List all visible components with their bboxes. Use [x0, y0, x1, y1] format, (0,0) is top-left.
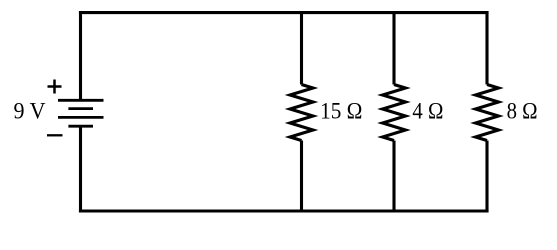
wire 15 ohm branch upper: [300, 11, 303, 84]
resistor 8 ohm (zigzag body): [476, 85, 499, 141]
svg-text:4 Ω: 4 Ω: [412, 98, 443, 123]
wire 4 ohm branch lower: [392, 141, 395, 213]
wire top (top rail from battery branch to right branch): [79, 11, 489, 14]
svg-text:8 Ω: 8 Ω: [507, 99, 538, 124]
resistor 4 ohm (zigzag body): [383, 85, 406, 141]
wire 4 ohm branch upper: [392, 11, 395, 84]
wire battery branch lower (battery - plate down to bottom rail): [79, 126, 82, 212]
wire 15 ohm branch lower: [300, 141, 303, 213]
battery V1 plate 2 (short plate): [68, 107, 93, 110]
svg-text:9 V: 9 V: [14, 99, 46, 124]
battery V1 9 V plate 1 (top long plate, positive): [58, 99, 104, 102]
wire 8 ohm branch lower (right rail): [485, 141, 488, 213]
resistor 15 ohm (zigzag body): [290, 85, 313, 141]
wire 8 ohm branch upper (right rail): [485, 11, 488, 84]
wire bottom (bottom rail from battery branch to right branch): [79, 209, 489, 212]
wire battery branch upper (top rail down to battery + plate): [79, 11, 82, 100]
svg-text:15 Ω: 15 Ω: [320, 98, 362, 123]
battery V1 plate 3 (long plate): [58, 116, 104, 119]
battery V1 plate 4 (bottom short plate, negative): [68, 125, 93, 128]
minus sign (battery negative terminal mark): [47, 134, 63, 136]
plus sign (battery positive terminal mark): [48, 80, 62, 94]
